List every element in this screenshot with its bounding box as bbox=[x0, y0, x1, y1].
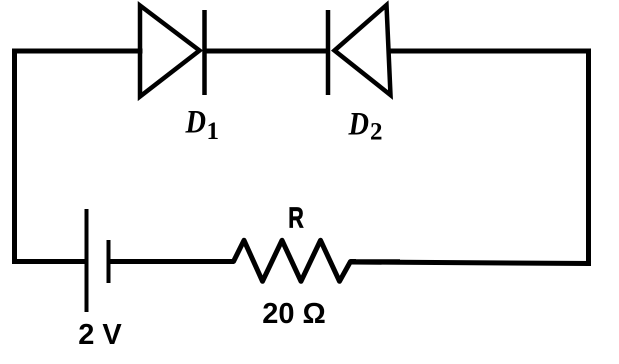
svg-text:R: R bbox=[288, 203, 304, 235]
wire right vertical bbox=[586, 51, 591, 264]
wire bottom-left segment bbox=[15, 259, 86, 264]
svg-text:20 Ω: 20 Ω bbox=[262, 298, 326, 330]
svg-text:2 V: 2 V bbox=[78, 319, 122, 351]
wire between D1 and D2 bbox=[205, 49, 329, 54]
diode D1 bbox=[140, 6, 205, 97]
diode D2 bbox=[328, 5, 391, 95]
wire battery to resistor bbox=[109, 259, 235, 264]
svg-text:2: 2 bbox=[370, 119, 383, 146]
wire resistor to bottom-right bbox=[351, 259, 400, 264]
svg-text:1: 1 bbox=[207, 118, 220, 145]
svg-text:D: D bbox=[348, 107, 369, 143]
wire bottom-right segment bbox=[352, 262, 589, 264]
wire top-left segment bbox=[15, 49, 141, 54]
wire top-right segment bbox=[389, 49, 589, 54]
battery V1 bbox=[87, 209, 109, 312]
wire left vertical bbox=[12, 51, 17, 262]
svg-text:D: D bbox=[185, 105, 206, 141]
resistor R bbox=[228, 240, 356, 281]
